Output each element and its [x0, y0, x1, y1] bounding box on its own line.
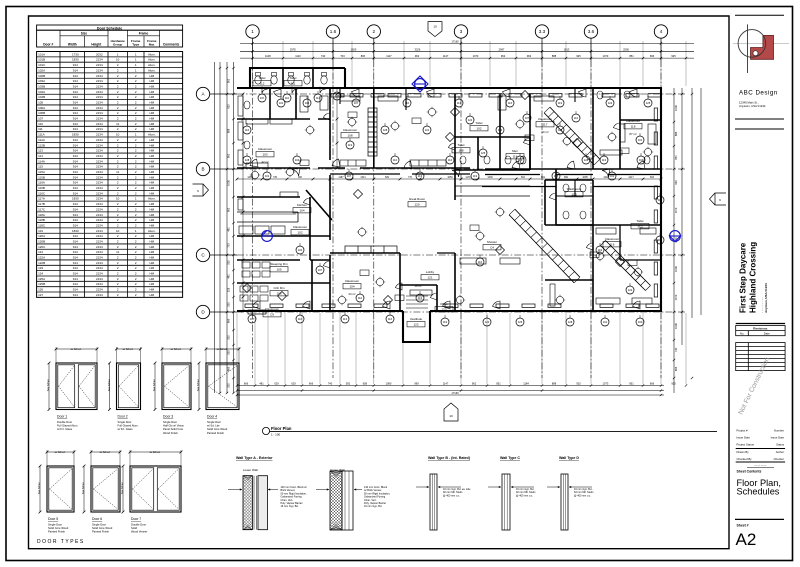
svg-text:666: 666 — [227, 318, 231, 323]
svg-text:122: 122 — [485, 320, 490, 324]
svg-text:116: 116 — [448, 158, 453, 162]
svg-text:925: 925 — [227, 104, 231, 109]
section marker blue left — [262, 230, 273, 241]
svg-text:851: 851 — [629, 382, 634, 386]
svg-text:First Step Daycare: First Step Daycare — [739, 242, 748, 313]
svg-text:Half Glz w/ Vision: Half Glz w/ Vision — [163, 424, 185, 428]
svg-text:87 m²: 87 m² — [629, 132, 636, 136]
svg-text:as Sched.: as Sched. — [71, 348, 82, 351]
diagonal ramp lower right — [509, 209, 580, 283]
svg-text:555: 555 — [227, 335, 231, 340]
svg-text:101: 101 — [265, 174, 270, 178]
svg-text:2978: 2978 — [290, 47, 296, 51]
svg-text:Wall Type A - Exterior: Wall Type A - Exterior — [236, 456, 273, 460]
door type 7 (double solid) — [122, 450, 183, 513]
svg-text:122: 122 — [413, 323, 418, 327]
svg-text:3.3: 3.3 — [539, 29, 546, 34]
svg-text:Door 3: Door 3 — [163, 415, 173, 419]
svg-text:117: 117 — [543, 123, 548, 127]
svg-text:Toilet: Toilet — [457, 143, 464, 147]
svg-text:1: 1 — [251, 29, 254, 34]
svg-text:609: 609 — [385, 176, 390, 179]
svg-text:2997: 2997 — [499, 47, 505, 51]
door type 4 — [198, 347, 241, 411]
project info rows — [737, 429, 785, 468]
svg-text:Highland Crossing: Highland Crossing — [749, 242, 758, 313]
svg-text:119: 119 — [348, 143, 353, 147]
svg-text:16 mm Gyp. Bd.: 16 mm Gyp. Bd. — [281, 505, 299, 508]
svg-text:See Sched.: See Sched. — [108, 378, 111, 391]
svg-text:Anytown, USA 01234: Anytown, USA 01234 — [764, 283, 768, 313]
svg-text:1147: 1147 — [443, 54, 449, 58]
svg-text:481: 481 — [227, 227, 231, 232]
svg-text:900: 900 — [298, 176, 303, 179]
svg-text:See Sched.: See Sched. — [47, 378, 50, 391]
svg-text:1341: 1341 — [360, 176, 366, 179]
svg-text:1036: 1036 — [674, 105, 678, 111]
svg-text:Comments: Comments — [163, 43, 180, 47]
svg-text:1509: 1509 — [351, 47, 357, 51]
left dimension strings — [215, 62, 235, 394]
svg-text:Drawn By: Drawn By — [737, 450, 750, 454]
svg-text:666: 666 — [650, 54, 655, 58]
svg-text:@ 400 mm o.c.: @ 400 mm o.c. — [516, 494, 533, 497]
svg-text:666: 666 — [309, 382, 314, 386]
svg-text:1813: 1813 — [564, 47, 570, 51]
diagonal ramp east — [601, 241, 651, 291]
svg-text:A2: A2 — [736, 530, 757, 549]
room area labels — [261, 130, 636, 296]
svg-text:962: 962 — [472, 382, 477, 386]
building exterior walls — [237, 68, 661, 342]
svg-text:w/ Frt. Glass: w/ Frt. Glass — [57, 427, 73, 431]
svg-text:Single Door: Single Door — [163, 420, 177, 424]
svg-text:1036: 1036 — [227, 180, 231, 186]
wall tag diamonds — [243, 91, 625, 305]
svg-text:Date: Date — [764, 332, 770, 336]
svg-text:1050: 1050 — [447, 176, 453, 179]
svg-text:101: 101 — [638, 138, 643, 142]
svg-text:17160: 17160 — [451, 391, 459, 395]
svg-text:108: 108 — [458, 149, 463, 153]
svg-text:107: 107 — [318, 268, 323, 272]
door type 2 — [108, 347, 142, 411]
svg-text:1073: 1073 — [603, 54, 609, 58]
svg-text:Wall Type C: Wall Type C — [500, 456, 520, 460]
sleeping room cribs — [240, 262, 270, 301]
svg-text:116: 116 — [658, 198, 663, 202]
svg-text:104: 104 — [295, 158, 300, 162]
svg-text:740: 740 — [674, 347, 678, 352]
svg-text:592: 592 — [346, 382, 351, 386]
svg-text:113: 113 — [418, 296, 423, 300]
svg-text:666: 666 — [674, 366, 678, 371]
casework north classrooms — [340, 96, 656, 166]
svg-text:w/ Sd. Lite: w/ Sd. Lite — [207, 424, 220, 428]
svg-text:See Sched.: See Sched. — [38, 481, 41, 494]
svg-text:104: 104 — [638, 320, 643, 324]
svg-text:925: 925 — [576, 382, 581, 386]
svg-text:122: 122 — [608, 101, 613, 105]
bottom dimension strings — [236, 313, 687, 396]
svg-text:116: 116 — [610, 243, 615, 247]
svg-text:113: 113 — [457, 101, 462, 105]
door type 5 — [39, 450, 76, 513]
svg-text:101: 101 — [603, 320, 608, 324]
svg-text:C9: C9 — [270, 313, 274, 317]
svg-text:Painted Finish: Painted Finish — [92, 530, 110, 534]
svg-text:1073: 1073 — [473, 54, 479, 58]
svg-text:666: 666 — [650, 382, 655, 386]
svg-text:Width: Width — [68, 43, 77, 47]
svg-text:107: 107 — [525, 116, 530, 120]
door type 1 (double) — [48, 347, 99, 411]
svg-text:113: 113 — [316, 96, 321, 100]
elevation marker pentagon right — [710, 193, 727, 205]
svg-text:962: 962 — [564, 176, 569, 179]
svg-text:104: 104 — [349, 285, 354, 289]
svg-text:116: 116 — [245, 128, 250, 132]
svg-text:107: 107 — [260, 96, 265, 100]
svg-text:1 : 100: 1 : 100 — [271, 433, 281, 437]
svg-text:128: 128 — [245, 158, 250, 162]
svg-text:2: 2 — [373, 29, 376, 34]
svg-text:925: 925 — [671, 382, 676, 386]
grid lines horizontal (dash-dot) — [237, 94, 686, 312]
svg-text:Painted Finish: Painted Finish — [48, 530, 66, 534]
svg-text:1073: 1073 — [674, 294, 678, 300]
svg-text:Wood Veneer: Wood Veneer — [131, 530, 147, 534]
svg-text:481: 481 — [259, 382, 264, 386]
top dimension strings — [240, 41, 694, 86]
svg-text:w/ Frt. Glass: w/ Frt. Glass — [118, 427, 134, 431]
svg-text:Status: Status — [776, 443, 785, 447]
svg-text:114: 114 — [513, 155, 518, 159]
corridor right band — [482, 186, 661, 188]
svg-text:119: 119 — [598, 248, 603, 252]
svg-text:203221342134213421342134213421: 2032213421342134213421342134213421342134… — [96, 52, 103, 297]
door swing arcs — [250, 87, 645, 309]
svg-text:1073: 1073 — [674, 207, 678, 213]
svg-text:as Sched.: as Sched. — [150, 451, 161, 454]
svg-text:101A101B101C102A102B103A103B10: 101A101B101C102A102B103A103B104A104B1051… — [38, 52, 46, 297]
svg-text:Schedules: Schedules — [737, 487, 780, 497]
svg-text:123: 123 — [441, 308, 446, 312]
svg-text:107: 107 — [354, 101, 359, 105]
svg-text:Classroom: Classroom — [626, 119, 641, 123]
svg-text:125: 125 — [646, 101, 651, 105]
svg-text:888: 888 — [552, 382, 557, 386]
svg-text:Door 6: Door 6 — [92, 517, 102, 521]
vestibule mat lines — [406, 296, 428, 308]
window sills east wall — [654, 108, 657, 297]
svg-text:4: 4 — [660, 29, 663, 34]
svg-text:Toilet: Toilet — [258, 76, 265, 80]
svg-text:See Sched.: See Sched. — [82, 481, 85, 494]
svg-text:104: 104 — [498, 128, 503, 132]
svg-text:16 mm Gyp. Bd.: 16 mm Gyp. Bd. — [364, 505, 382, 508]
svg-text:1147: 1147 — [443, 382, 449, 386]
row grid bubbles left (A-D) — [196, 87, 237, 318]
svg-text:Checker: Checker — [774, 457, 784, 461]
svg-text:116: 116 — [388, 317, 393, 321]
svg-text:Solid: Solid — [131, 526, 137, 530]
svg-text:Classroom: Classroom — [343, 128, 358, 132]
svg-text:1036: 1036 — [674, 323, 678, 329]
svg-text:Issue Date: Issue Date — [771, 436, 785, 440]
svg-text:962: 962 — [227, 207, 231, 212]
svg-text:740: 740 — [321, 54, 326, 58]
svg-text:888: 888 — [227, 128, 231, 133]
svg-text:110: 110 — [574, 116, 579, 120]
svg-text:Solid Core Wood: Solid Core Wood — [92, 526, 113, 530]
svg-text:703: 703 — [340, 54, 345, 58]
svg-text:105: 105 — [276, 268, 281, 272]
svg-text:113: 113 — [343, 317, 348, 321]
svg-text:as Sched.: as Sched. — [171, 348, 182, 351]
svg-text:128: 128 — [383, 128, 388, 132]
svg-text:Great Room: Great Room — [409, 197, 426, 201]
svg-text:Sheet #: Sheet # — [737, 524, 749, 528]
svg-text:Panel Solid Core: Panel Solid Core — [163, 427, 184, 431]
revisions table — [736, 324, 785, 371]
svg-text:Mat.: Mat. — [149, 43, 155, 47]
svg-text:888: 888 — [552, 54, 557, 58]
svg-text:110: 110 — [358, 296, 363, 300]
svg-text:925: 925 — [671, 54, 676, 58]
svg-text:as Sched.: as Sched. — [100, 451, 111, 454]
svg-text:107: 107 — [250, 317, 255, 321]
svg-text:103: 103 — [262, 153, 267, 157]
svg-text:Sleeping Rm: Sleeping Rm — [270, 262, 288, 266]
svg-text:1C5: 1C5 — [571, 193, 577, 197]
floor plan view title — [262, 426, 717, 437]
svg-text:@ 400 mm o.c.: @ 400 mm o.c. — [443, 494, 460, 497]
svg-text:Checked By: Checked By — [737, 457, 753, 461]
svg-text:113: 113 — [418, 174, 423, 178]
svg-text:as Sched.: as Sched. — [55, 451, 66, 454]
svg-text:999: 999 — [414, 382, 419, 386]
svg-text:Door 7: Door 7 — [131, 517, 141, 521]
right dimension strings — [673, 88, 701, 393]
svg-text:Classroom: Classroom — [258, 147, 273, 151]
svg-text:101: 101 — [425, 128, 430, 132]
interior dim text — [247, 176, 654, 179]
svg-text:2590: 2590 — [623, 47, 629, 51]
window sills north wall — [331, 94, 661, 97]
corridor south parallel wall — [330, 173, 661, 176]
svg-text:851: 851 — [629, 54, 634, 58]
svg-text:119: 119 — [658, 238, 663, 242]
title block rules — [735, 119, 784, 129]
svg-text:925: 925 — [576, 54, 581, 58]
svg-text:770: 770 — [408, 176, 413, 179]
svg-text:1C1: 1C1 — [637, 225, 643, 229]
svg-text:110: 110 — [285, 96, 290, 100]
interior partition walls — [237, 68, 661, 311]
svg-text:Door 5: Door 5 — [48, 517, 58, 521]
svg-text:Toilet: Toilet — [636, 219, 643, 223]
svg-text:B: B — [201, 167, 204, 172]
svg-text:962: 962 — [227, 78, 231, 83]
svg-text:1110: 1110 — [295, 54, 301, 58]
svg-text:122: 122 — [468, 118, 473, 122]
svg-text:121: 121 — [427, 276, 432, 280]
svg-text:125: 125 — [481, 151, 486, 155]
svg-text:120: 120 — [414, 203, 419, 207]
svg-text:Painted Finish: Painted Finish — [207, 431, 225, 435]
svg-text:Single Door: Single Door — [92, 523, 106, 527]
door schedule table — [37, 25, 183, 47]
svg-text:104: 104 — [298, 248, 303, 252]
svg-text:Revisions: Revisions — [753, 327, 768, 331]
svg-text:128: 128 — [584, 158, 589, 162]
svg-text:Anytown, USA 01234: Anytown, USA 01234 — [739, 104, 766, 108]
svg-text:Door 1: Door 1 — [57, 415, 67, 419]
svg-text:Frame: Frame — [139, 32, 149, 36]
svg-text:ABC Design: ABC Design — [739, 90, 778, 97]
svg-text:Door Schedule: Door Schedule — [97, 26, 122, 30]
north band partition stubs — [340, 88, 575, 110]
svg-text:Classroom: Classroom — [345, 279, 360, 283]
svg-text:110: 110 — [298, 317, 303, 321]
svg-text:888: 888 — [674, 131, 678, 136]
door type 3 — [154, 347, 193, 411]
svg-text:1330: 1330 — [487, 176, 493, 179]
svg-text:Size: Size — [81, 32, 88, 36]
svg-text:125: 125 — [518, 320, 523, 324]
svg-text:Classroom: Classroom — [538, 117, 553, 121]
svg-text:DOOR TYPES: DOOR TYPES — [37, 539, 85, 545]
svg-text:C4: C4 — [490, 246, 494, 250]
svg-text:125: 125 — [335, 94, 340, 98]
svg-text:113: 113 — [602, 158, 607, 162]
svg-text:3: 3 — [460, 29, 463, 34]
svg-text:851: 851 — [674, 155, 678, 160]
svg-text:Type: Type — [132, 43, 139, 47]
svg-text:Door #: Door # — [43, 43, 53, 47]
svg-text:Men: Men — [512, 149, 518, 153]
svg-text:106: 106 — [276, 292, 281, 296]
svg-text:Single Door: Single Door — [118, 420, 132, 424]
svg-text:102: 102 — [476, 127, 481, 131]
svg-text:104: 104 — [305, 101, 310, 105]
svg-text:125: 125 — [554, 174, 559, 178]
grid lines vertical (dash-dot) — [253, 60, 662, 378]
svg-text:116: 116 — [508, 101, 513, 105]
elevation marker pentagon top — [428, 22, 442, 37]
svg-text:— — — —: — — — — — [754, 464, 767, 467]
svg-text:Double Door: Double Door — [57, 420, 72, 424]
svg-text:119: 119 — [558, 101, 563, 105]
window sills south wall — [245, 304, 659, 307]
svg-text:Sheet Contents: Sheet Contents — [737, 470, 762, 474]
svg-text:1184: 1184 — [523, 382, 529, 386]
svg-text:666: 666 — [244, 382, 249, 386]
svg-text:128: 128 — [568, 320, 573, 324]
svg-text:Author: Author — [776, 450, 784, 454]
svg-text:60 m²: 60 m² — [541, 130, 548, 134]
elevation marker pentagon left — [193, 184, 209, 196]
svg-text:10: 10 — [433, 25, 437, 29]
svg-text:Single Door: Single Door — [48, 523, 62, 527]
svg-text:801: 801 — [541, 176, 546, 179]
svg-text:1187: 1187 — [338, 176, 344, 179]
svg-text:Toilet: Toilet — [475, 121, 482, 125]
svg-text:104: 104 — [299, 209, 304, 213]
svg-text:Issue Date: Issue Date — [737, 436, 751, 440]
svg-text:518: 518 — [227, 287, 231, 292]
svg-text:806: 806 — [361, 54, 366, 58]
elevation marker pentagon bottom — [444, 403, 458, 421]
svg-text:481: 481 — [227, 274, 231, 279]
svg-text:Crib Rm: Crib Rm — [274, 286, 286, 290]
svg-text:Wall Type D: Wall Type D — [559, 456, 579, 460]
svg-text:555: 555 — [227, 383, 231, 388]
svg-text:as Sched.: as Sched. — [217, 348, 228, 351]
svg-text:Solid Core Wood: Solid Core Wood — [207, 427, 228, 431]
svg-text:118: 118 — [631, 125, 636, 129]
svg-text:740: 740 — [328, 382, 333, 386]
svg-text:1095: 1095 — [582, 176, 588, 179]
svg-text:Group: Group — [113, 43, 122, 47]
svg-text:Shower: Shower — [487, 240, 497, 244]
svg-text:658: 658 — [363, 382, 368, 386]
svg-text:555: 555 — [227, 302, 231, 307]
svg-text:122: 122 — [628, 288, 633, 292]
svg-text:3226: 3226 — [415, 47, 421, 51]
sheet number — [735, 518, 784, 520]
casework southeast rooms — [410, 228, 656, 306]
svg-text:No.: No. — [740, 332, 745, 336]
svg-text:102: 102 — [297, 231, 302, 235]
svg-text:1417: 1417 — [628, 176, 634, 179]
svg-text:101: 101 — [279, 101, 284, 105]
door type 6 — [83, 450, 122, 513]
company logo — [733, 24, 789, 73]
svg-text:Full Glazed Alum.: Full Glazed Alum. — [57, 424, 78, 428]
svg-text:Classroom: Classroom — [293, 225, 308, 229]
svg-text:104: 104 — [639, 158, 644, 162]
svg-text:Full Glazed Alum.: Full Glazed Alum. — [118, 424, 139, 428]
svg-text:Project Status: Project Status — [737, 443, 755, 447]
svg-text:Solid Core Wood: Solid Core Wood — [48, 526, 69, 530]
svg-text:108: 108 — [347, 134, 352, 138]
title block: top rule — [735, 14, 784, 16]
svg-text:Project #: Project # — [737, 429, 748, 433]
svg-text:1036: 1036 — [674, 266, 678, 272]
svg-text:101: 101 — [610, 174, 615, 178]
svg-text:@ 400 mm o.c.: @ 400 mm o.c. — [574, 494, 591, 497]
svg-text:116: 116 — [478, 260, 483, 264]
svg-text:Vestibule: Vestibule — [410, 317, 423, 321]
svg-text:See Sched.: See Sched. — [197, 378, 200, 391]
room labels — [253, 76, 649, 327]
svg-text:999: 999 — [674, 180, 678, 185]
svg-text:10: 10 — [449, 414, 453, 418]
svg-text:3.6: 3.6 — [588, 29, 595, 34]
svg-text:1.6: 1.6 — [330, 29, 337, 34]
svg-text:42 m²: 42 m² — [261, 160, 268, 164]
svg-text:703: 703 — [227, 243, 231, 248]
interior dimension string corridor — [236, 93, 663, 313]
svg-text:Single Door: Single Door — [207, 420, 221, 424]
fixtures center toilets — [244, 91, 650, 219]
svg-text:Office: Office — [440, 302, 448, 306]
svg-text:1176: 1176 — [465, 176, 471, 179]
svg-text:664: 664 — [650, 176, 655, 179]
svg-text:851: 851 — [496, 382, 501, 386]
